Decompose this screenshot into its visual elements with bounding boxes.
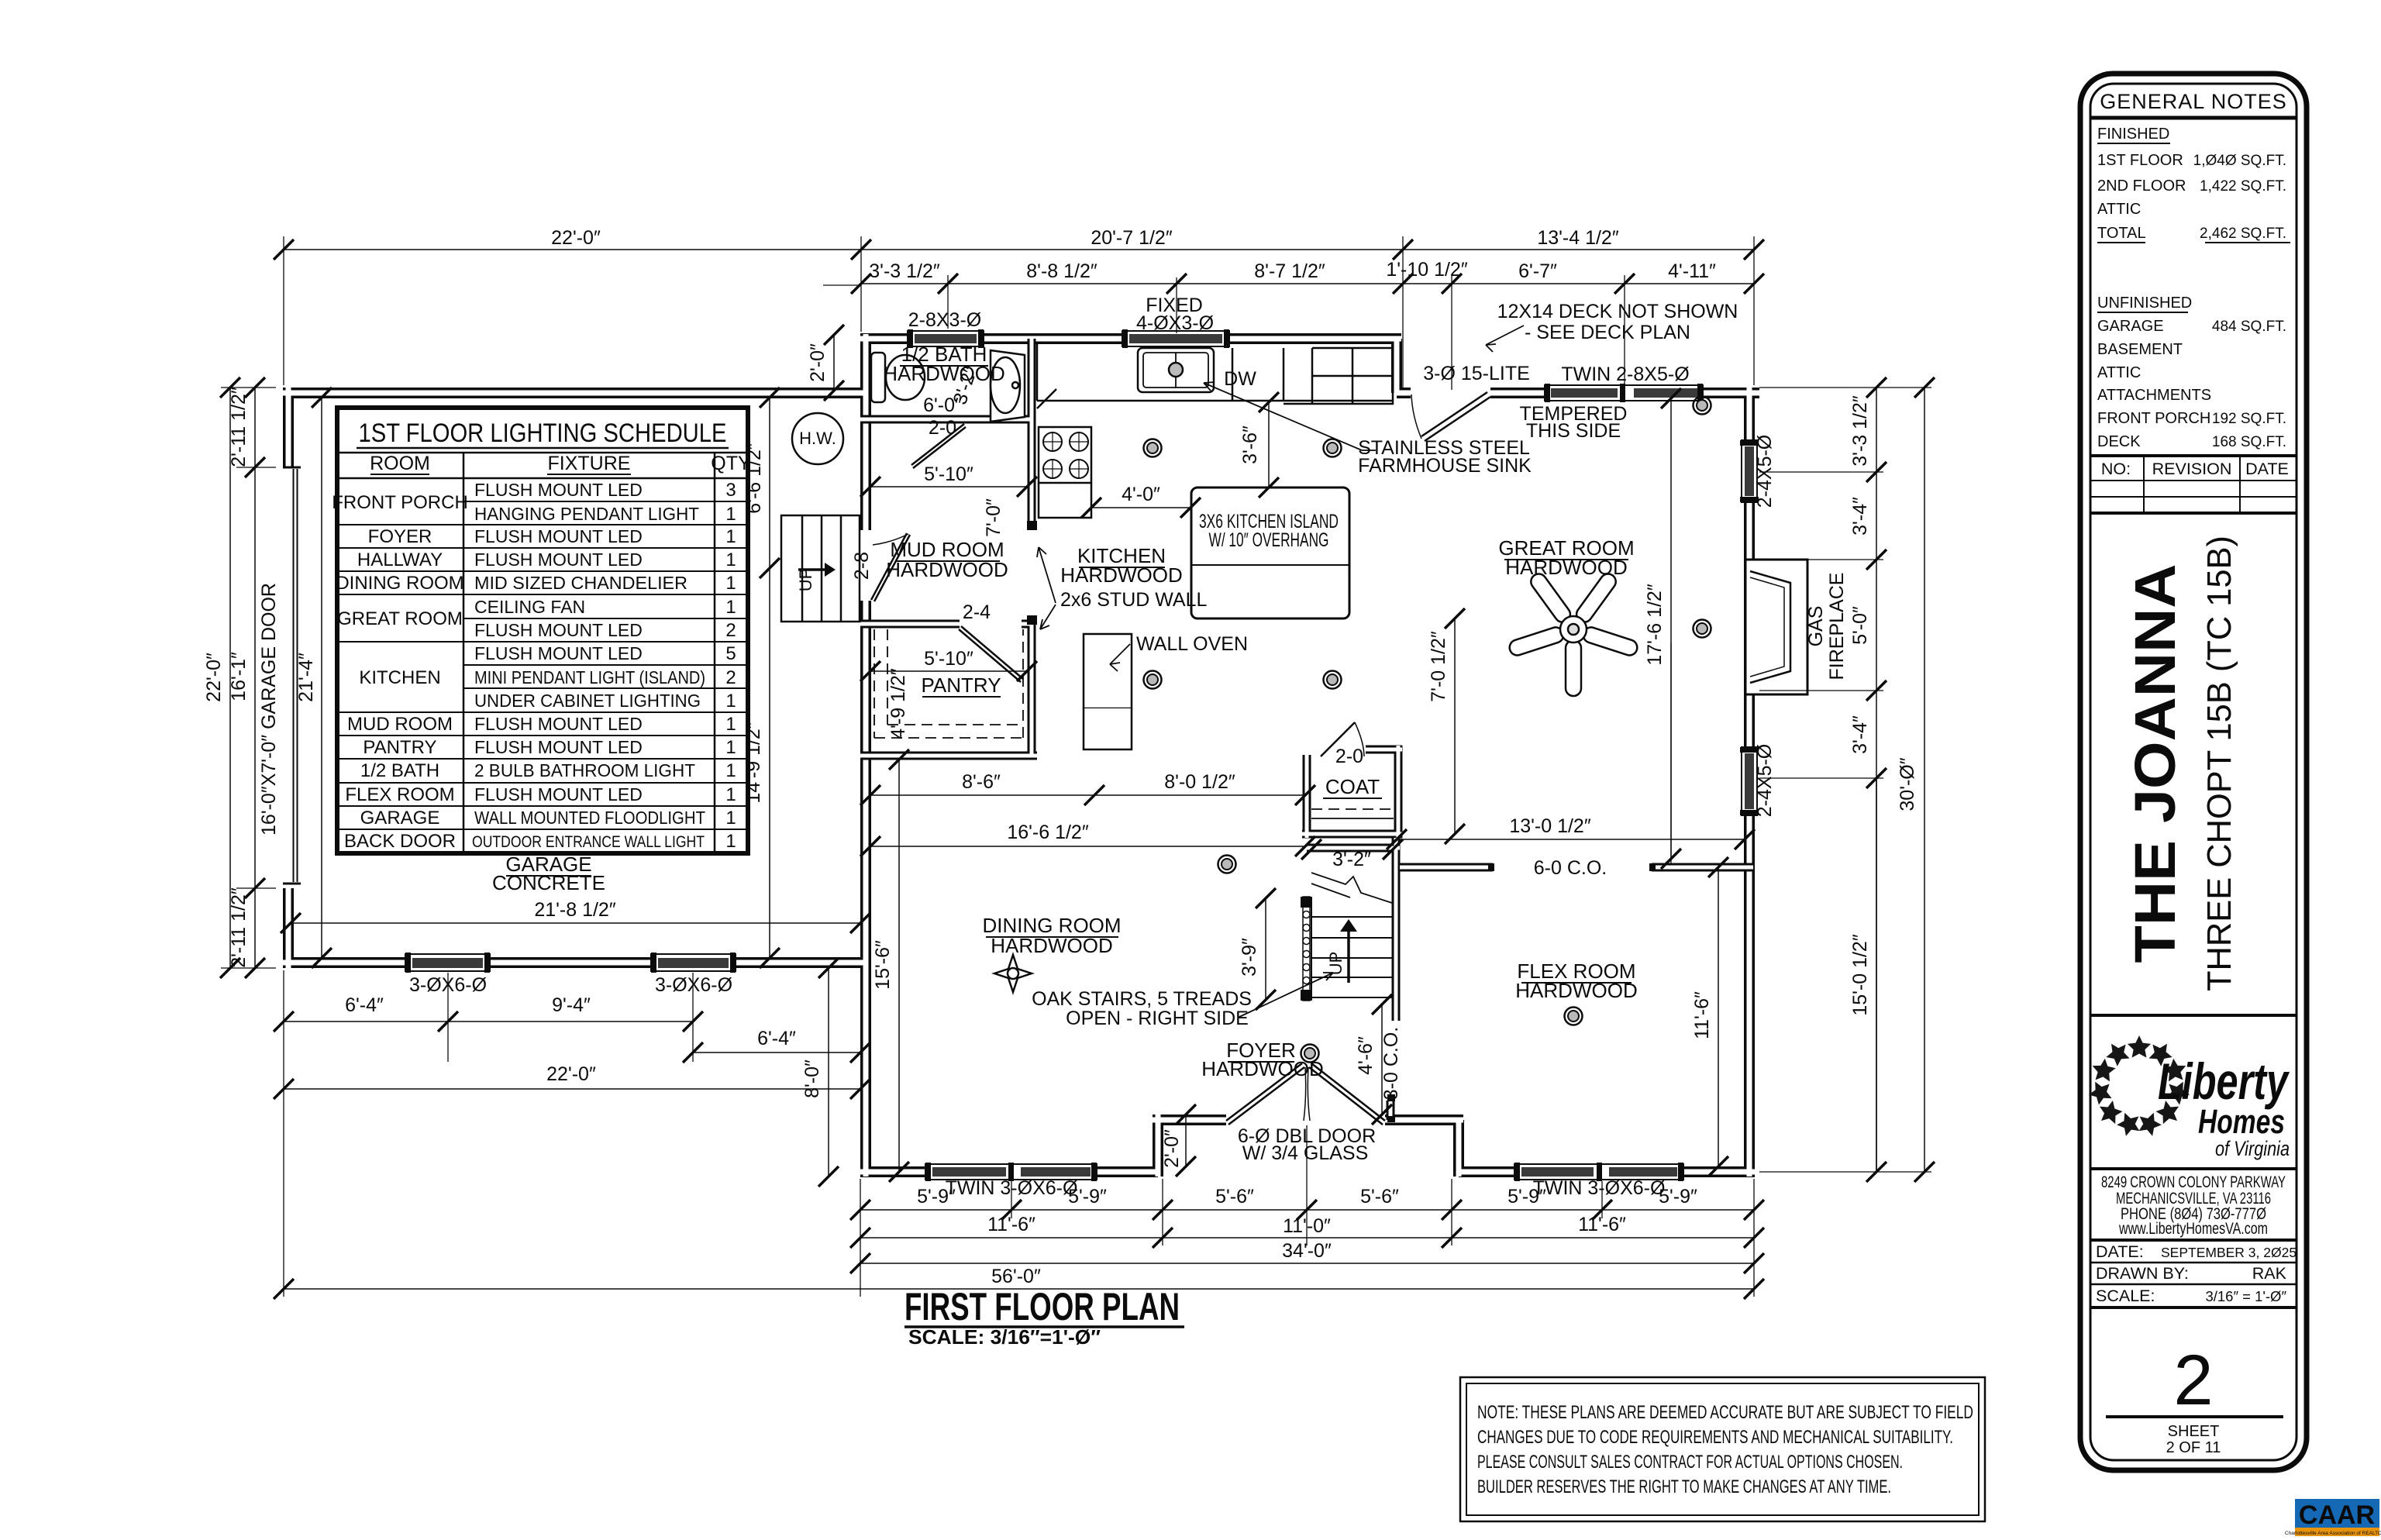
svg-text:TOTAL: TOTAL xyxy=(2097,225,2146,242)
svg-text:Homes: Homes xyxy=(2198,1103,2285,1141)
svg-text:CEILING FAN: CEILING FAN xyxy=(474,597,585,617)
coat door 2-0 leaf + swing xyxy=(1321,722,1355,756)
svg-text:of Virginia: of Virginia xyxy=(2215,1137,2290,1160)
svg-text:ATTACHMENTS: ATTACHMENTS xyxy=(2097,387,2211,404)
svg-text:56'-0″: 56'-0″ xyxy=(991,1266,1041,1287)
window TWIN 2-8X5-0 (great room) xyxy=(1545,384,1703,402)
interior wall bath/mud/pantry vs kitchen xyxy=(1028,339,1036,756)
foyer bump right vertical xyxy=(1453,1120,1464,1177)
svg-text:MID SIZED CHANDELIER: MID SIZED CHANDELIER xyxy=(474,573,687,593)
exterior walls: white core pass xyxy=(283,334,1759,1177)
interior walls white pass xyxy=(860,339,1753,1120)
svg-text:15'-6″: 15'-6″ xyxy=(872,940,894,990)
svg-text:FRONT PORCH: FRONT PORCH xyxy=(332,492,468,513)
flex front wall xyxy=(1459,1166,1755,1177)
svg-text:Charlottesville Area Associati: Charlottesville Area Association of REAL… xyxy=(2285,1531,2381,1536)
svg-text:REVISION: REVISION xyxy=(2152,460,2232,478)
svg-text:HARDWOOD: HARDWOOD xyxy=(991,934,1112,957)
svg-text:FLUSH MOUNT LED: FLUSH MOUNT LED xyxy=(474,784,643,804)
svg-text:2: 2 xyxy=(2173,1341,2213,1420)
svg-text:H.W.: H.W. xyxy=(799,429,836,448)
svg-text:1: 1 xyxy=(725,597,736,618)
svg-text:UNDER CABINET LIGHTING: UNDER CABINET LIGHTING xyxy=(474,691,701,711)
15'-0 1/2" xyxy=(1876,778,1877,1172)
svg-text:KITCHEN: KITCHEN xyxy=(359,667,440,688)
svg-text:2 BULB BATHROOM LIGHT: 2 BULB BATHROOM LIGHT xyxy=(474,760,695,780)
svg-text:WALL OVEN: WALL OVEN xyxy=(1136,633,1248,655)
svg-text:1ST FLOOR: 1ST FLOOR xyxy=(2097,152,2183,169)
svg-text:1: 1 xyxy=(725,526,736,547)
svg-text:4'-0″: 4'-0″ xyxy=(1122,484,1160,505)
great room top wall xyxy=(1397,388,1759,398)
svg-text:ROOM: ROOM xyxy=(370,453,430,474)
stair baluster rail xyxy=(1301,897,1312,1001)
table texts xyxy=(332,480,736,852)
svg-text:HARDWOOD: HARDWOOD xyxy=(1515,979,1637,1002)
svg-text:HALLWAY: HALLWAY xyxy=(357,550,443,570)
svg-text:13'-0 1/2″: 13'-0 1/2″ xyxy=(1509,815,1591,837)
fireplace xyxy=(1745,560,1807,694)
svg-text:HARDWOOD: HARDWOOD xyxy=(883,362,1004,385)
window 2-4X5-0 upper (great room right wall) xyxy=(1740,440,1759,502)
svg-text:1ST FLOOR LIGHTING SCHEDULE: 1ST FLOOR LIGHTING SCHEDULE xyxy=(359,419,727,448)
toilet xyxy=(871,353,925,402)
svg-text:11'-0″: 11'-0″ xyxy=(1283,1215,1331,1237)
svg-text:FLEX ROOM: FLEX ROOM xyxy=(345,784,454,805)
16'-6 1/2" row xyxy=(870,846,1305,847)
svg-text:CHANGES DUE TO CODE REQUIREMEN: CHANGES DUE TO CODE REQUIREMENTS AND MEC… xyxy=(1477,1427,1953,1448)
step wall kitchen to great room xyxy=(1391,339,1402,393)
svg-text:W/ 10″ OVERHANG: W/ 10″ OVERHANG xyxy=(1209,529,1329,551)
window FIXED 4-0X3-0 (kitchen sink) xyxy=(1122,329,1229,348)
svg-text:22'-0″: 22'-0″ xyxy=(203,653,225,702)
svg-text:4'-9 1/2″: 4'-9 1/2″ xyxy=(887,668,909,739)
svg-text:THIS SIDE: THIS SIDE xyxy=(1526,420,1621,442)
window 3-0X6-0 garage left xyxy=(405,953,490,973)
svg-text:3'-3 1/2″: 3'-3 1/2″ xyxy=(1849,395,1871,467)
svg-text:2-8X3-Ø: 2-8X3-Ø xyxy=(908,309,981,331)
main top wall (bath/kitchen) xyxy=(860,333,1401,344)
svg-text:FRONT PORCH: FRONT PORCH xyxy=(2097,410,2210,427)
svg-text:2x6 STUD WALL: 2x6 STUD WALL xyxy=(1060,589,1208,611)
svg-text:30'-Ø″: 30'-Ø″ xyxy=(1897,757,1918,811)
svg-text:4-ØX3-Ø: 4-ØX3-Ø xyxy=(1136,312,1214,334)
dining front wall xyxy=(860,1166,1158,1177)
stairs right wall xyxy=(1392,838,1401,1021)
svg-text:MUD ROOM: MUD ROOM xyxy=(347,714,453,735)
svg-text:1: 1 xyxy=(725,831,736,852)
back door 3-0 15-LITE leaf + swing xyxy=(1421,392,1490,441)
svg-text:1: 1 xyxy=(725,808,736,829)
svg-text:FLUSH MOUNT LED: FLUSH MOUNT LED xyxy=(474,714,643,734)
svg-text:4'-6″: 4'-6″ xyxy=(1355,1036,1377,1075)
svg-text:- SEE DECK PLAN: - SEE DECK PLAN xyxy=(1525,322,1690,343)
stairs break line xyxy=(1311,873,1392,903)
svg-text:3'-4″: 3'-4″ xyxy=(1849,497,1871,536)
svg-text:BACK DOOR: BACK DOOR xyxy=(344,831,456,852)
mud room bottom wall xyxy=(860,620,1032,629)
window TWIN 3-0X6-0 (flex front) xyxy=(1514,1163,1683,1181)
svg-text:SCALE:: SCALE: xyxy=(2096,1287,2155,1305)
row separators: full width rows xyxy=(337,501,748,829)
svg-text:NOTE: THESE PLANS ARE DEEMED A: NOTE: THESE PLANS ARE DEEMED ACCURATE BU… xyxy=(1477,1402,1973,1423)
svg-text:NO:: NO: xyxy=(2101,460,2131,478)
svg-text:2-0: 2-0 xyxy=(929,417,956,439)
svg-text:TWIN 3-ØX6-Ø: TWIN 3-ØX6-Ø xyxy=(946,1177,1078,1199)
svg-text:2 OF 11: 2 OF 11 xyxy=(2166,1439,2221,1456)
interior walls black pass xyxy=(860,339,1753,1120)
CAAR logo xyxy=(2285,1499,2381,1536)
bath door 2-0 leaf xyxy=(911,424,966,468)
pantry dashed shelves xyxy=(874,629,1023,738)
svg-text:3-0 C.O.: 3-0 C.O. xyxy=(1380,1027,1402,1100)
exterior walls: black pass xyxy=(283,334,1759,1177)
svg-text:6'-7″: 6'-7″ xyxy=(1518,260,1557,282)
svg-text:HARDWOOD: HARDWOOD xyxy=(886,558,1008,581)
window TWIN 3-0X6-0 (dining front) xyxy=(925,1163,1097,1181)
svg-text:FLUSH MOUNT LED: FLUSH MOUNT LED xyxy=(474,526,643,546)
tick marks xyxy=(220,239,1935,1299)
svg-text:WALL MOUNTED FLOODLIGHT: WALL MOUNTED FLOODLIGHT xyxy=(474,808,705,828)
svg-text:12X14 DECK NOT SHOWN: 12X14 DECK NOT SHOWN xyxy=(1497,301,1738,322)
svg-text:1: 1 xyxy=(725,573,736,594)
svg-text:5'-10″: 5'-10″ xyxy=(924,648,973,670)
svg-text:2-8: 2-8 xyxy=(851,552,873,580)
svg-text:W/ 3/4 GLASS: W/ 3/4 GLASS xyxy=(1242,1142,1369,1164)
window 2-8X3-0 (1/2 bath) xyxy=(908,329,984,348)
svg-text:COAT: COAT xyxy=(1325,775,1380,798)
svg-text:PLEASE CONSULT SALES CONTRACT: PLEASE CONSULT SALES CONTRACT FOR ACTUAL… xyxy=(1477,1452,1903,1473)
svg-text:FOYER: FOYER xyxy=(368,526,432,547)
svg-text:2'-0″: 2'-0″ xyxy=(1161,1129,1183,1168)
hallway stub wall right xyxy=(1652,863,1753,872)
svg-text:1,Ø4Ø SQ.FT.: 1,Ø4Ø SQ.FT. xyxy=(2193,153,2286,169)
svg-text:2'-11 1/2″: 2'-11 1/2″ xyxy=(228,387,250,467)
svg-text:3-Ø 15-LITE: 3-Ø 15-LITE xyxy=(1423,363,1530,384)
svg-text:Liberty: Liberty xyxy=(2158,1053,2290,1110)
H.W. heater xyxy=(792,413,843,464)
svg-text:192 SQ.FT.: 192 SQ.FT. xyxy=(2212,411,2286,427)
svg-text:1: 1 xyxy=(725,760,736,781)
svg-text:21'-4″: 21'-4″ xyxy=(295,653,317,702)
svg-text:GAS: GAS xyxy=(1805,606,1827,647)
svg-text:22'-0″: 22'-0″ xyxy=(546,1063,596,1085)
svg-text:FIREPLACE: FIREPLACE xyxy=(1826,573,1848,680)
coat closet right wall xyxy=(1394,746,1403,838)
foyer door wall xyxy=(1153,1115,1463,1125)
coat closet left wall xyxy=(1303,755,1311,838)
svg-text:DINING ROOM: DINING ROOM xyxy=(336,573,463,594)
svg-text:CAAR: CAAR xyxy=(2299,1500,2375,1530)
right columns xyxy=(1876,388,1877,1172)
svg-text:1/2 BATH: 1/2 BATH xyxy=(360,760,439,781)
svg-text:3'-9″: 3'-9″ xyxy=(1239,938,1260,977)
left column xyxy=(229,388,231,968)
svg-text:6'-4″: 6'-4″ xyxy=(345,994,384,1016)
dining chandelier star xyxy=(994,955,1032,992)
svg-text:1: 1 xyxy=(725,550,736,570)
wall oven xyxy=(1084,634,1132,749)
svg-text:3'-4″: 3'-4″ xyxy=(1849,715,1871,754)
11'-6" flex height xyxy=(1718,867,1719,1166)
kitchen farmhouse sink xyxy=(1138,348,1214,392)
garage stairs xyxy=(781,515,860,622)
ceiling fan great room xyxy=(1504,566,1639,701)
svg-text:2'-0″: 2'-0″ xyxy=(807,343,829,382)
svg-text:3-ØX6-Ø: 3-ØX6-Ø xyxy=(409,974,487,996)
15'-6" xyxy=(898,760,900,1172)
kitchen counters xyxy=(1037,343,1393,518)
svg-text:SHEET: SHEET xyxy=(2168,1423,2220,1440)
garage interior stair dim 6'-6 1/2" xyxy=(769,398,770,958)
svg-text:13'-4 1/2″: 13'-4 1/2″ xyxy=(1537,227,1619,249)
svg-text:2'-11 1/2″: 2'-11 1/2″ xyxy=(228,887,250,968)
svg-text:HARDWOOD: HARDWOOD xyxy=(1201,1057,1323,1080)
svg-text:5'-10″: 5'-10″ xyxy=(924,463,973,485)
garage window dims xyxy=(284,1021,693,1022)
svg-text:DATE:: DATE: xyxy=(2096,1242,2144,1261)
range xyxy=(1039,427,1091,483)
wall end caps xyxy=(1027,521,1656,1122)
svg-text:7'-0 1/2″: 7'-0 1/2″ xyxy=(1428,631,1449,702)
17'-6 1/2" xyxy=(1670,398,1672,859)
coat closet top right segment xyxy=(1366,746,1402,754)
svg-text:TWIN 3-ØX6-Ø: TWIN 3-ØX6-Ø xyxy=(1533,1177,1666,1199)
garage/mud door 2-8 leaf xyxy=(871,533,910,601)
svg-text:OUTDOOR ENTRANCE WALL LIGHT: OUTDOOR ENTRANCE WALL LIGHT xyxy=(472,833,705,851)
svg-text:BASEMENT: BASEMENT xyxy=(2097,341,2183,358)
svg-text:1: 1 xyxy=(725,737,736,758)
svg-text:FLUSH MOUNT LED: FLUSH MOUNT LED xyxy=(474,480,643,500)
svg-text:HARDWOOD: HARDWOOD xyxy=(1060,563,1182,587)
8'-0" left xyxy=(828,968,829,1177)
Liberty Homes logo xyxy=(2086,1035,2290,1160)
svg-text:1: 1 xyxy=(725,504,736,525)
svg-text:8'-0″: 8'-0″ xyxy=(801,1059,823,1098)
svg-text:5'-6″: 5'-6″ xyxy=(1215,1186,1254,1208)
svg-text:UNFINISHED: UNFINISHED xyxy=(2097,295,2192,312)
main stairs treads xyxy=(1311,898,1392,1000)
svg-text:8'-6″: 8'-6″ xyxy=(962,771,1001,793)
3'-9" stairs xyxy=(1265,898,1266,1000)
svg-text:QTY: QTY xyxy=(711,453,751,474)
wall below closet (stair head) xyxy=(1307,844,1400,853)
svg-text:11'-6″: 11'-6″ xyxy=(987,1214,1035,1235)
svg-text:2: 2 xyxy=(725,667,736,688)
svg-text:ATTIC: ATTIC xyxy=(2097,364,2141,381)
svg-text:8'-8 1/2″: 8'-8 1/2″ xyxy=(1026,260,1097,282)
4'-0" xyxy=(1091,507,1190,508)
8'-6" / 8'-0 1/2" row xyxy=(870,794,1305,796)
svg-text:16'-1″: 16'-1″ xyxy=(228,652,250,701)
mud 5'-10" xyxy=(870,486,1027,487)
13'-0 1/2" xyxy=(1397,839,1745,840)
svg-text:BUILDER RESERVES THE RIGHT TO: BUILDER RESERVES THE RIGHT TO MAKE CHANG… xyxy=(1477,1476,1891,1497)
svg-text:5'-6″: 5'-6″ xyxy=(1360,1186,1399,1208)
svg-text:9'-4″: 9'-4″ xyxy=(552,994,591,1016)
range burners xyxy=(1043,432,1088,478)
svg-text:ATTIC: ATTIC xyxy=(2097,201,2141,218)
pantry door 2-4 leaf xyxy=(959,626,1023,682)
svg-text:3'-3 1/2″: 3'-3 1/2″ xyxy=(869,260,940,282)
garage bottom wall xyxy=(283,957,866,968)
svg-text:3-ØX6-Ø: 3-ØX6-Ø xyxy=(655,974,732,996)
svg-text:UP: UP xyxy=(796,568,815,592)
svg-text:RAK: RAK xyxy=(2252,1264,2287,1283)
svg-text:FIXTURE: FIXTURE xyxy=(548,453,631,474)
svg-text:5: 5 xyxy=(725,643,736,664)
svg-text:CONCRETE: CONCRETE xyxy=(492,871,605,894)
garage door panel xyxy=(293,469,298,882)
svg-text:1'-10 1/2″: 1'-10 1/2″ xyxy=(1386,259,1468,281)
garage left wall upper segment xyxy=(283,388,294,467)
svg-text:16'-0″X7'-0″ GARAGE DOOR: 16'-0″X7'-0″ GARAGE DOOR xyxy=(258,583,280,835)
svg-text:6'-4″: 6'-4″ xyxy=(757,1028,796,1049)
svg-text:FLUSH MOUNT LED: FLUSH MOUNT LED xyxy=(474,737,643,757)
svg-text:4'-11″: 4'-11″ xyxy=(1668,260,1716,282)
svg-text:15'-0 1/2″: 15'-0 1/2″ xyxy=(1849,934,1871,1016)
garage top wall xyxy=(283,388,866,398)
svg-text:2-4X5-Ø: 2-4X5-Ø xyxy=(1754,744,1776,817)
svg-text:16'-6 1/2″: 16'-6 1/2″ xyxy=(1007,822,1089,843)
svg-text:20'-7 1/2″: 20'-7 1/2″ xyxy=(1091,227,1173,249)
svg-text:1,422 SQ.FT.: 1,422 SQ.FT. xyxy=(2200,178,2286,195)
top row1 xyxy=(284,249,1754,250)
foyer bump left vertical xyxy=(1153,1115,1163,1177)
svg-text:MINI PENDANT LIGHT (ISLAND): MINI PENDANT LIGHT (ISLAND) xyxy=(474,667,705,687)
svg-text:SEPTEMBER 3, 2Ø25: SEPTEMBER 3, 2Ø25 xyxy=(2161,1245,2297,1260)
svg-text:3/16″ = 1'-Ø″: 3/16″ = 1'-Ø″ xyxy=(2205,1288,2286,1304)
svg-text:FLUSH MOUNT LED: FLUSH MOUNT LED xyxy=(474,550,643,570)
svg-text:1: 1 xyxy=(725,691,736,711)
svg-text:GREAT ROOM: GREAT ROOM xyxy=(337,608,463,629)
svg-text:PANTRY: PANTRY xyxy=(921,674,1001,697)
svg-text:21'-8 1/2″: 21'-8 1/2″ xyxy=(534,899,616,921)
window 2-4X5-0 lower (flex right wall) xyxy=(1740,747,1759,815)
coat closet bottom wall xyxy=(1302,830,1402,839)
svg-text:2-0: 2-0 xyxy=(1335,746,1363,767)
svg-text:5'-0″: 5'-0″ xyxy=(1849,606,1871,645)
svg-text:3'-6″: 3'-6″ xyxy=(1239,425,1261,464)
svg-text:17'-6 1/2″: 17'-6 1/2″ xyxy=(1644,584,1666,666)
main house left wall xyxy=(860,334,871,1177)
svg-text:2,462 SQ.FT.: 2,462 SQ.FT. xyxy=(2200,226,2286,242)
svg-text:DECK: DECK xyxy=(2097,433,2141,450)
21'-8 1/2" garage interior dim xyxy=(291,922,860,924)
3'-6" island xyxy=(1268,402,1270,487)
svg-text:2-4X5-Ø: 2-4X5-Ø xyxy=(1754,435,1776,508)
svg-text:HANGING PENDANT LIGHT: HANGING PENDANT LIGHT xyxy=(474,504,699,524)
svg-text:DW: DW xyxy=(1224,368,1256,390)
svg-text:11'-6″: 11'-6″ xyxy=(1578,1214,1626,1235)
svg-text:THREE CHOPT 15B (TC 15B): THREE CHOPT 15B (TC 15B) xyxy=(2200,536,2238,991)
svg-text:6-0 C.O.: 6-0 C.O. xyxy=(1534,857,1607,879)
top row2 xyxy=(861,283,1754,284)
svg-text:PANTRY: PANTRY xyxy=(363,737,436,758)
great room / flex right wall xyxy=(1744,388,1755,1177)
svg-text:GENERAL NOTES: GENERAL NOTES xyxy=(2100,90,2287,113)
garage left wall lower segment xyxy=(283,888,294,968)
svg-text:www.LibertyHomesVA.com: www.LibertyHomesVA.com xyxy=(2118,1219,2268,1238)
svg-text:THE JOANNA: THE JOANNA xyxy=(2123,564,2187,963)
svg-text:1: 1 xyxy=(725,714,736,735)
2'-0" foyer recess xyxy=(1185,1115,1187,1166)
svg-text:OAK STAIRS, 5 TREADS: OAK STAIRS, 5 TREADS xyxy=(1032,988,1252,1010)
bottom rows xyxy=(860,1209,1754,1211)
svg-text:8'-7 1/2″: 8'-7 1/2″ xyxy=(1254,260,1325,282)
svg-text:TWIN 2-8X5-Ø: TWIN 2-8X5-Ø xyxy=(1561,363,1689,385)
svg-text:8'-0 1/2″: 8'-0 1/2″ xyxy=(1164,771,1235,793)
front double door leaves xyxy=(1226,1063,1304,1125)
svg-text:2-4: 2-4 xyxy=(963,601,991,623)
svg-text:484 SQ.FT.: 484 SQ.FT. xyxy=(2212,319,2286,335)
svg-text:34'-0″: 34'-0″ xyxy=(1282,1240,1332,1262)
kitchen island xyxy=(1191,487,1349,618)
recessed lights xyxy=(1144,439,1162,457)
bath pedestal sink xyxy=(991,350,1025,422)
svg-text:SCALE: 3/16″=1'-Ø″: SCALE: 3/16″=1'-Ø″ xyxy=(908,1325,1101,1349)
svg-text:11'-6″: 11'-6″ xyxy=(1691,991,1713,1039)
stairs UP arrow xyxy=(1340,919,1357,983)
svg-text:DATE: DATE xyxy=(2245,460,2289,478)
window 3-0X6-0 garage right xyxy=(651,953,736,973)
svg-text:3'-2″: 3'-2″ xyxy=(1332,849,1371,870)
svg-text:HARDWOOD: HARDWOOD xyxy=(1505,556,1627,579)
svg-text:22'-0″: 22'-0″ xyxy=(551,227,601,249)
svg-text:FIRST FLOOR PLAN: FIRST FLOOR PLAN xyxy=(905,1285,1180,1328)
svg-text:FINISHED: FINISHED xyxy=(2097,126,2169,143)
svg-text:3: 3 xyxy=(725,480,736,501)
svg-text:7'-0″: 7'-0″ xyxy=(983,498,1004,537)
flex room dim wall (11'-6" line side) xyxy=(1387,1101,1395,1120)
svg-text:1: 1 xyxy=(725,784,736,805)
hallway stub wall left xyxy=(1400,863,1493,872)
svg-text:2ND FLOOR: 2ND FLOOR xyxy=(2097,177,2186,195)
svg-text:168 SQ.FT.: 168 SQ.FT. xyxy=(2212,434,2286,450)
svg-text:GARAGE: GARAGE xyxy=(360,808,440,829)
svg-text:UP: UP xyxy=(1326,952,1346,976)
pantry bottom wall xyxy=(860,752,1037,760)
svg-text:FLUSH MOUNT LED: FLUSH MOUNT LED xyxy=(474,643,643,663)
svg-text:OPEN - RIGHT SIDE: OPEN - RIGHT SIDE xyxy=(1066,1008,1249,1029)
4'-6" foyer xyxy=(1381,1004,1383,1115)
pantry 5'-10" xyxy=(870,670,1027,672)
7'-0 1/2" xyxy=(1454,618,1456,834)
coat closet dashed shelf xyxy=(1311,809,1394,818)
2'-0" top left house xyxy=(833,335,835,391)
svg-text:2: 2 xyxy=(725,620,736,641)
svg-text:FARMHOUSE SINK: FARMHOUSE SINK xyxy=(1358,455,1532,477)
bath bottom wall xyxy=(860,415,1032,424)
svg-text:FLUSH MOUNT LED: FLUSH MOUNT LED xyxy=(474,620,643,640)
svg-text:DRAWN BY:: DRAWN BY: xyxy=(2096,1264,2189,1283)
svg-text:GARAGE: GARAGE xyxy=(2097,318,2164,335)
